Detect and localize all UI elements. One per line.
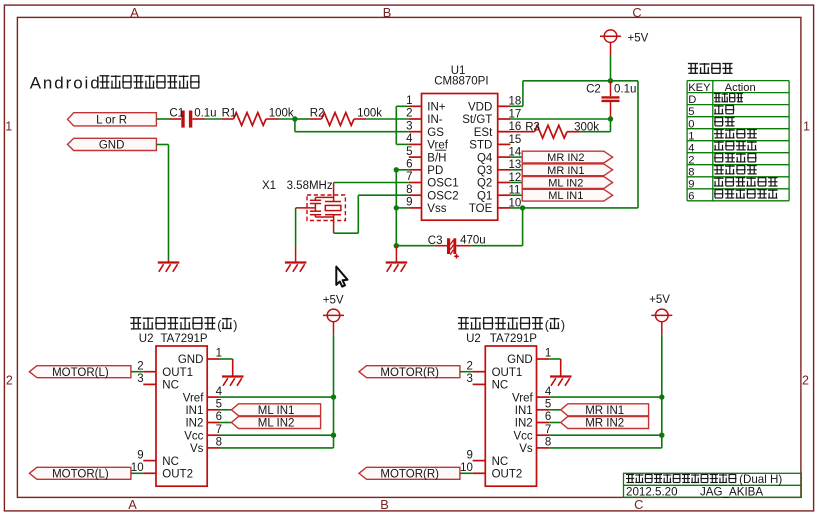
- svg-text:8: 8: [406, 184, 412, 196]
- svg-text:KEY: KEY: [688, 82, 711, 94]
- svg-text:300k: 300k: [574, 121, 599, 133]
- svg-text:GND: GND: [178, 354, 204, 366]
- svg-text:+5V: +5V: [323, 295, 344, 307]
- svg-text:Vcc: Vcc: [184, 430, 203, 442]
- svg-text:9: 9: [688, 178, 694, 190]
- svg-text:3: 3: [466, 373, 472, 385]
- svg-text:15: 15: [509, 134, 522, 146]
- svg-text:6: 6: [545, 411, 551, 423]
- svg-text:IN+: IN+: [427, 102, 446, 114]
- svg-text:MR IN2: MR IN2: [585, 418, 624, 430]
- svg-text:1: 1: [216, 348, 222, 360]
- svg-text:5: 5: [406, 146, 412, 158]
- svg-text:0.1u: 0.1u: [194, 107, 216, 119]
- svg-text:MOTOR(R): MOTOR(R): [380, 468, 439, 480]
- svg-text:3: 3: [137, 373, 143, 385]
- svg-text:Q3: Q3: [477, 165, 492, 177]
- svg-text:2: 2: [6, 374, 13, 388]
- svg-text:Android: Android: [30, 74, 102, 93]
- svg-text:IN2: IN2: [185, 418, 203, 430]
- svg-text:MOTOR(L): MOTOR(L): [52, 367, 109, 379]
- svg-text:Vss: Vss: [427, 203, 446, 215]
- svg-text:6: 6: [216, 411, 222, 423]
- svg-text:R3: R3: [525, 121, 540, 133]
- svg-text:A: A: [128, 497, 137, 512]
- svg-text:R1: R1: [222, 107, 237, 119]
- svg-text:470u: 470u: [460, 234, 486, 246]
- svg-text:9: 9: [466, 449, 472, 461]
- svg-text:4: 4: [406, 133, 413, 145]
- svg-text:100k: 100k: [357, 107, 382, 119]
- svg-text:8: 8: [216, 437, 222, 449]
- svg-text:1: 1: [5, 120, 12, 134]
- svg-text:OSC2: OSC2: [427, 190, 458, 202]
- svg-text:MOTOR(R): MOTOR(R): [380, 367, 439, 379]
- svg-text:5: 5: [688, 106, 694, 118]
- svg-text:4: 4: [216, 386, 223, 398]
- svg-text:ML IN1: ML IN1: [258, 405, 295, 417]
- svg-text:St/GT: St/GT: [462, 114, 492, 126]
- svg-text:GND: GND: [99, 140, 125, 152]
- svg-text:C2: C2: [586, 84, 601, 96]
- svg-text:0: 0: [688, 118, 694, 130]
- svg-text:OUT2: OUT2: [492, 469, 523, 481]
- svg-text:D: D: [688, 94, 696, 106]
- svg-text:B: B: [380, 497, 389, 512]
- svg-text:OSC1: OSC1: [427, 178, 458, 190]
- svg-text:4: 4: [545, 386, 552, 398]
- svg-text:Q1: Q1: [477, 190, 492, 202]
- svg-text:9: 9: [137, 449, 143, 461]
- svg-text:7: 7: [216, 424, 222, 436]
- svg-text:Vs: Vs: [519, 443, 533, 455]
- svg-text:GND: GND: [507, 354, 533, 366]
- svg-text:C: C: [634, 497, 643, 512]
- svg-text:IN1: IN1: [185, 405, 203, 417]
- svg-text:Q4: Q4: [477, 152, 493, 164]
- svg-text:ML IN1: ML IN1: [548, 190, 583, 202]
- svg-text:Q2: Q2: [477, 178, 492, 190]
- svg-text:OUT1: OUT1: [492, 367, 523, 379]
- svg-text:A: A: [130, 5, 139, 20]
- svg-text:3: 3: [406, 120, 412, 132]
- svg-text:2: 2: [137, 360, 143, 372]
- svg-text:Vref: Vref: [183, 392, 204, 404]
- svg-text:10: 10: [131, 462, 144, 474]
- svg-text:1: 1: [406, 95, 412, 107]
- svg-text:OUT2: OUT2: [162, 469, 193, 481]
- svg-text:5: 5: [545, 399, 551, 411]
- svg-text:10: 10: [460, 462, 473, 474]
- svg-text:TOE: TOE: [469, 203, 493, 215]
- svg-text:MR IN1: MR IN1: [547, 165, 584, 177]
- svg-text:4: 4: [688, 142, 694, 154]
- svg-text:1: 1: [545, 348, 551, 360]
- svg-text:Vs: Vs: [190, 443, 204, 455]
- svg-text:C1: C1: [169, 107, 184, 119]
- svg-text:7: 7: [406, 171, 412, 183]
- svg-text:): ): [561, 319, 565, 333]
- svg-text:100k: 100k: [269, 107, 294, 119]
- svg-text:X1: X1: [262, 180, 276, 192]
- svg-text:Vcc: Vcc: [514, 430, 533, 442]
- svg-text:L or R: L or R: [96, 114, 127, 126]
- svg-text:CM8870PI: CM8870PI: [434, 76, 488, 88]
- svg-text:5: 5: [216, 399, 222, 411]
- svg-text:6: 6: [406, 159, 412, 171]
- svg-text:C3: C3: [428, 235, 443, 247]
- svg-text:MR IN2: MR IN2: [547, 152, 584, 164]
- svg-text:2012.5.20: 2012.5.20: [626, 486, 678, 499]
- svg-text:2: 2: [466, 360, 472, 372]
- svg-text:IN-: IN-: [427, 114, 443, 126]
- svg-text:MOTOR(L): MOTOR(L): [52, 468, 109, 480]
- svg-text:2: 2: [802, 374, 809, 388]
- svg-text:7: 7: [545, 424, 551, 436]
- svg-text:9: 9: [406, 197, 412, 209]
- svg-text:1: 1: [803, 120, 810, 134]
- svg-text:B: B: [383, 5, 392, 20]
- svg-text:8: 8: [545, 437, 551, 449]
- svg-text:GS: GS: [427, 127, 444, 139]
- svg-text:(Dual H): (Dual H): [739, 473, 782, 486]
- svg-text:U2: U2: [466, 333, 481, 345]
- svg-text:NC: NC: [492, 380, 509, 392]
- svg-text:8: 8: [688, 166, 694, 178]
- svg-text:+5V: +5V: [649, 294, 670, 306]
- svg-text:STD: STD: [469, 140, 492, 152]
- svg-text:Action: Action: [725, 82, 756, 94]
- svg-text:JAG_AKIBA: JAG_AKIBA: [700, 486, 763, 499]
- svg-text:TA7291P: TA7291P: [490, 333, 537, 345]
- svg-text:ESt: ESt: [474, 127, 493, 139]
- svg-text:ML IN2: ML IN2: [548, 178, 583, 190]
- svg-text:MR IN1: MR IN1: [585, 405, 624, 417]
- svg-text:R2: R2: [310, 107, 325, 119]
- svg-text:OUT1: OUT1: [162, 367, 193, 379]
- svg-text:IN2: IN2: [515, 418, 533, 430]
- svg-text:PD: PD: [427, 165, 443, 177]
- svg-text:IN1: IN1: [515, 405, 533, 417]
- svg-text:NC: NC: [162, 380, 179, 392]
- svg-text:NC: NC: [492, 456, 509, 468]
- svg-text:+5V: +5V: [628, 32, 649, 44]
- svg-text:C: C: [632, 5, 641, 20]
- svg-text:1: 1: [688, 130, 694, 142]
- svg-text:6: 6: [688, 190, 694, 202]
- svg-text:VDD: VDD: [468, 102, 492, 114]
- svg-text:NC: NC: [162, 456, 179, 468]
- svg-text:3.58MHz: 3.58MHz: [287, 180, 333, 192]
- svg-text:ML IN2: ML IN2: [258, 418, 295, 430]
- svg-text:B/H: B/H: [427, 152, 446, 164]
- svg-text:0.1u: 0.1u: [614, 84, 636, 96]
- svg-text:U2: U2: [139, 333, 154, 345]
- svg-text:): ): [233, 319, 237, 333]
- svg-text:Vref: Vref: [512, 392, 533, 404]
- svg-text:2: 2: [688, 154, 694, 166]
- svg-text:TA7291P: TA7291P: [161, 333, 208, 345]
- svg-text:2: 2: [406, 108, 412, 120]
